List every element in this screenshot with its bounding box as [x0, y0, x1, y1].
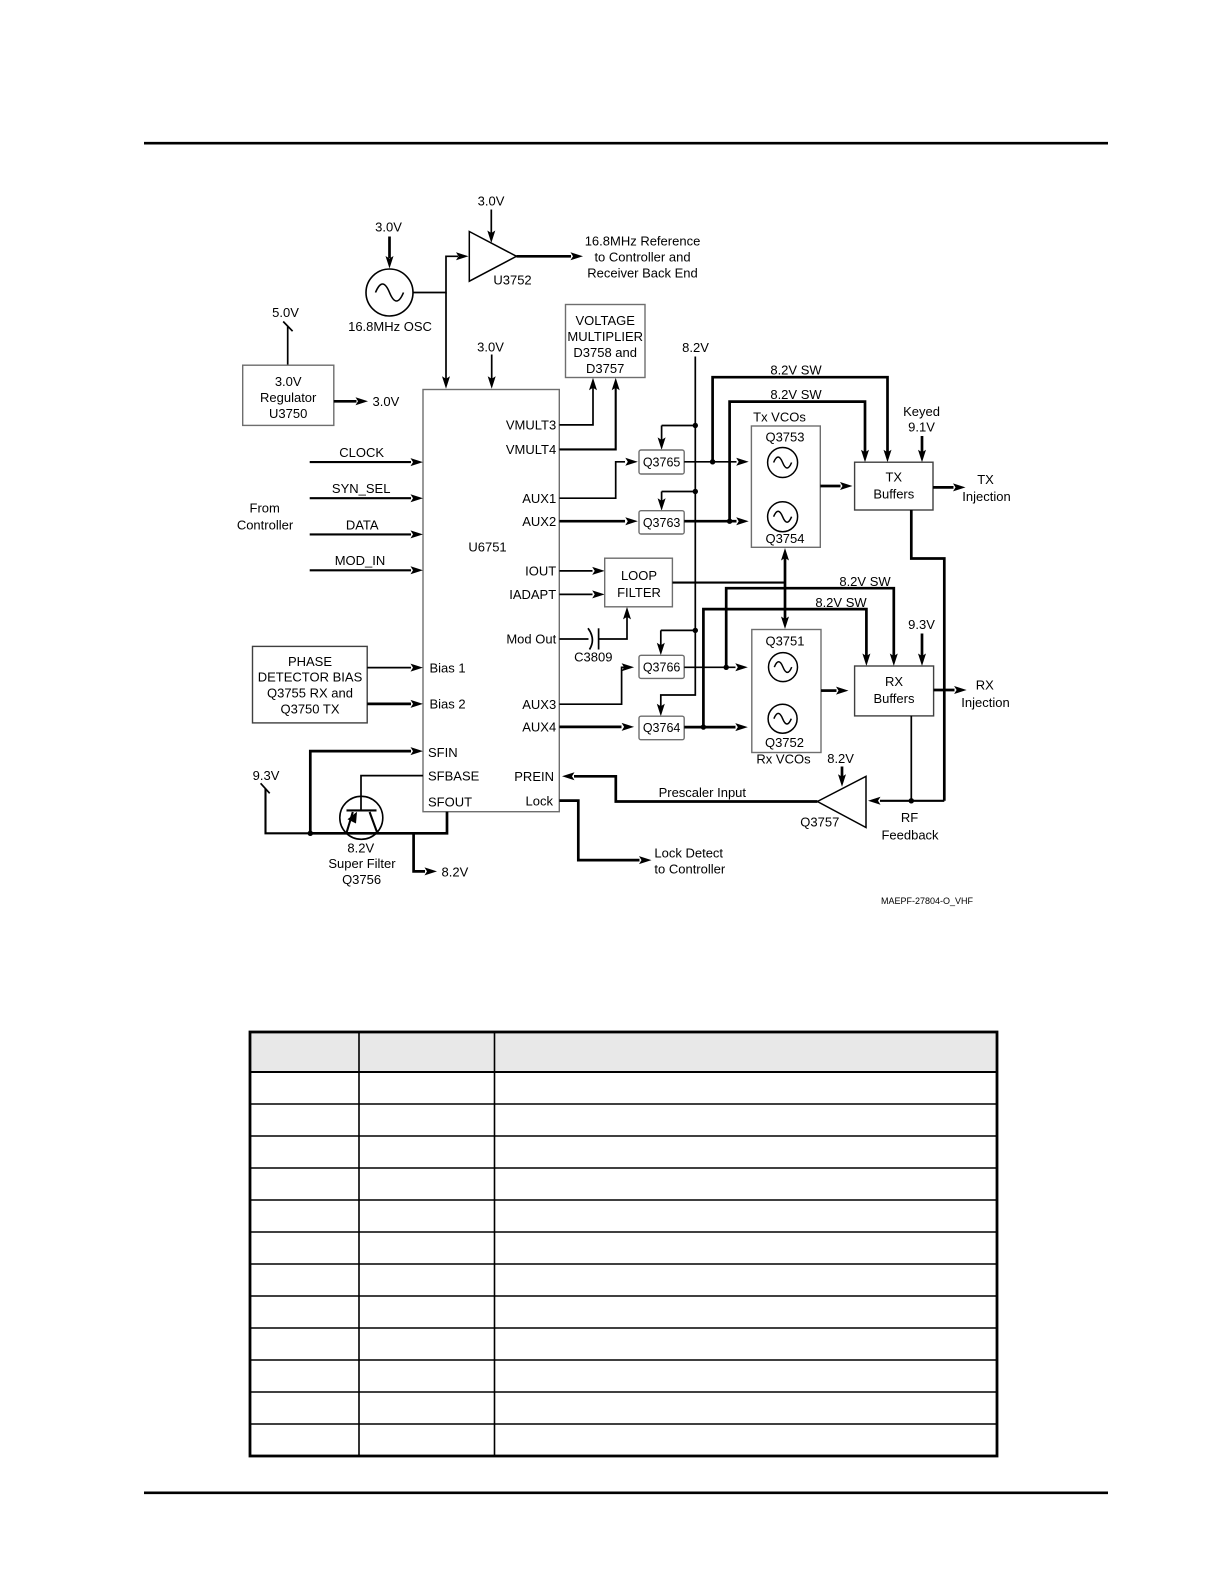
- node 8.2V rail junction C: [693, 628, 698, 633]
- svg-text:Rx VCOs: Rx VCOs: [756, 752, 811, 767]
- node RF feedback junction: [909, 798, 914, 803]
- oscillator Q3751: [769, 653, 798, 682]
- svg-text:Regulator: Regulator: [260, 390, 317, 405]
- wire RF feedback into Q3757: [868, 797, 944, 843]
- node super filter junction: [308, 831, 313, 836]
- wire SFIN feed: [310, 747, 423, 833]
- svg-text:Q3752: Q3752: [765, 735, 804, 750]
- svg-text:U3752: U3752: [493, 272, 531, 287]
- svg-text:MAEPF-27804-O_VHF: MAEPF-27804-O_VHF: [881, 896, 974, 906]
- svg-text:IADAPT: IADAPT: [509, 587, 556, 602]
- regulator U3750: [243, 365, 334, 425]
- svg-text:5.0V: 5.0V: [272, 305, 299, 320]
- wire oscillator output node: [413, 252, 469, 292]
- wire Q3765 output: [684, 458, 749, 466]
- svg-text:AUX4: AUX4: [522, 720, 556, 735]
- label 16.8MHz reference destination: [585, 233, 701, 280]
- node SW2 junction: [727, 519, 732, 524]
- svg-text:8.2V SW: 8.2V SW: [770, 387, 822, 402]
- wire 9.3V supply tap: [253, 768, 311, 834]
- wire 5.0V supply tap: [272, 305, 299, 365]
- svg-text:MOD_IN: MOD_IN: [335, 553, 386, 568]
- svg-text:IOUT: IOUT: [525, 564, 556, 579]
- wire Q3764 output: [684, 723, 748, 731]
- svg-text:8.2V: 8.2V: [827, 751, 854, 766]
- wire 8.2V SW line 3: [726, 574, 898, 668]
- pin Lock: [526, 793, 554, 808]
- svg-text:Lock: Lock: [526, 793, 554, 808]
- wire C3809 to loop filter: [599, 607, 631, 639]
- wire Q3763 supply feed: [658, 492, 696, 511]
- wire Q3766 output: [684, 663, 748, 671]
- wire Q3766 supply feed: [657, 630, 696, 655]
- svg-text:Controller: Controller: [237, 518, 294, 533]
- svg-text:RX: RX: [885, 674, 903, 689]
- svg-text:8.2V: 8.2V: [442, 864, 469, 879]
- wire TX feedback: [911, 510, 944, 801]
- capacitor C3809: [559, 628, 612, 664]
- svg-text:Bias 1: Bias 1: [430, 660, 466, 675]
- wire SFBASE lead: [361, 776, 423, 811]
- wire AUX1 to Q3765: [559, 458, 638, 498]
- svg-text:Q3757: Q3757: [800, 814, 839, 829]
- label drawing number MAEPF-27804-O_VHF: [881, 896, 974, 906]
- svg-text:3.0V: 3.0V: [373, 394, 400, 409]
- svg-text:VMULT3: VMULT3: [506, 418, 556, 433]
- top rule: [144, 142, 1108, 145]
- svg-text:CLOCK: CLOCK: [339, 445, 384, 460]
- buffer Q3763: [639, 511, 684, 534]
- wire RX injection output: [934, 678, 1010, 710]
- wire 8.2V SW line 2: [730, 387, 869, 521]
- wire VMULT3 to multiplier: [559, 378, 597, 425]
- oscillator Q3752: [765, 704, 804, 750]
- wire SFOUT bottom rail: [310, 812, 447, 834]
- wire 8.2V SW line 1: [713, 363, 892, 463]
- svg-text:TX: TX: [885, 470, 902, 485]
- wire SYN_SEL: [310, 481, 423, 502]
- buffer Q3766: [639, 655, 684, 678]
- svg-text:C3809: C3809: [574, 649, 612, 664]
- svg-text:MULTIPLIER: MULTIPLIER: [567, 329, 643, 344]
- wire CLOCK: [310, 445, 423, 466]
- svg-text:3.0V: 3.0V: [478, 194, 505, 209]
- label From Controller: [237, 501, 294, 533]
- wire IADAPT: [559, 590, 604, 598]
- svg-text:SFBASE: SFBASE: [428, 768, 480, 783]
- svg-text:VOLTAGE: VOLTAGE: [575, 313, 635, 328]
- wire Q3763 output: [684, 517, 749, 525]
- svg-text:DETECTOR BIAS: DETECTOR BIAS: [258, 669, 363, 684]
- svg-text:AUX1: AUX1: [522, 491, 556, 506]
- svg-text:SFIN: SFIN: [428, 745, 458, 760]
- svg-text:9.3V: 9.3V: [908, 617, 935, 632]
- block RX Buffers: [855, 666, 934, 716]
- svg-text:DATA: DATA: [346, 518, 379, 533]
- svg-text:Tx VCOs: Tx VCOs: [753, 410, 806, 425]
- oscillator Q3753: [768, 448, 798, 478]
- svg-text:RX: RX: [976, 678, 994, 693]
- pin SFBASE label: [428, 768, 480, 783]
- svg-text:Q3764: Q3764: [643, 721, 681, 735]
- wire TX injection output: [933, 472, 1011, 504]
- pin AUX4: [522, 720, 556, 735]
- svg-text:Receiver Back End: Receiver Back End: [587, 265, 698, 280]
- svg-text:Super Filter: Super Filter: [328, 856, 396, 871]
- pin AUX3: [522, 697, 556, 712]
- svg-text:Bias 2: Bias 2: [430, 697, 466, 712]
- bottom rule: [144, 1492, 1108, 1495]
- pin VMULT4: [506, 442, 556, 457]
- svg-text:SFOUT: SFOUT: [428, 794, 472, 809]
- svg-text:8.2V: 8.2V: [682, 340, 709, 355]
- oscillator Q3754: [765, 502, 804, 546]
- voltage multiplier D3758 D3757: [566, 305, 646, 378]
- transistor Q3757: [800, 776, 866, 829]
- node SW4 junction: [701, 724, 706, 729]
- svg-text:Feedback: Feedback: [881, 828, 939, 843]
- pin AUX2: [522, 514, 556, 529]
- node 8.2V rail junction B: [693, 489, 698, 494]
- svg-text:3.0V: 3.0V: [375, 220, 402, 235]
- wire AUX2 to Q3763: [559, 517, 638, 525]
- svg-text:Q3750 TX: Q3750 TX: [280, 702, 339, 717]
- pin Mod Out: [506, 632, 556, 647]
- buffer Q3764: [639, 716, 684, 740]
- pin IOUT: [525, 564, 556, 579]
- label super filter: [328, 840, 396, 887]
- pin PREIN: [514, 769, 554, 784]
- svg-text:9.1V: 9.1V: [908, 420, 935, 435]
- svg-text:to Controller and: to Controller and: [594, 249, 690, 264]
- block Rx VCOs: [752, 630, 821, 753]
- wire 9.3V into RX buffers: [908, 617, 935, 666]
- svg-text:Mod Out: Mod Out: [506, 632, 556, 647]
- svg-text:8.2V SW: 8.2V SW: [770, 363, 822, 378]
- svg-text:TX: TX: [977, 472, 994, 487]
- pin VMULT3: [506, 418, 556, 433]
- svg-text:RF: RF: [901, 810, 918, 825]
- wire oscillator to U6751 clock input: [442, 293, 450, 389]
- wire keyed 9.1V: [903, 404, 940, 462]
- wire 3.0V into U3752: [478, 194, 505, 244]
- wire lock detect: [559, 801, 726, 877]
- svg-text:D3758 and: D3758 and: [573, 345, 637, 360]
- svg-text:U6751: U6751: [468, 540, 506, 555]
- svg-text:9.3V: 9.3V: [253, 768, 280, 783]
- svg-text:Q3763: Q3763: [643, 516, 681, 530]
- pin Bias 2 label: [430, 697, 466, 712]
- svg-text:Q3755 RX and: Q3755 RX and: [267, 686, 353, 701]
- wire Rx VCO output: [821, 687, 849, 695]
- wire 3.0V into oscillator: [375, 220, 402, 269]
- node SW1 junction: [710, 459, 715, 464]
- svg-text:Q3765: Q3765: [643, 455, 681, 469]
- svg-text:16.8MHz Reference: 16.8MHz Reference: [585, 233, 701, 248]
- wire 16.8MHz reference output: [517, 252, 584, 260]
- wire MOD_IN: [310, 553, 423, 574]
- wire Q3765 supply feed: [658, 426, 696, 450]
- wire prescaler input: [562, 772, 817, 801]
- IC U6751: [423, 390, 559, 812]
- node SW3 junction: [724, 665, 729, 670]
- svg-text:FILTER: FILTER: [617, 585, 661, 600]
- svg-text:3.0V: 3.0V: [477, 339, 504, 354]
- wire 3.0V into U6751 top: [477, 339, 504, 389]
- svg-text:AUX2: AUX2: [522, 514, 556, 529]
- svg-text:VMULT4: VMULT4: [506, 442, 556, 457]
- wire loop filter to VCOs: [672, 582, 785, 584]
- op-amp buffer U3752: [469, 232, 531, 288]
- svg-text:Keyed: Keyed: [903, 404, 940, 419]
- svg-text:Lock Detect: Lock Detect: [654, 846, 723, 861]
- svg-text:8.2V SW: 8.2V SW: [839, 574, 891, 589]
- svg-text:From: From: [250, 501, 280, 516]
- svg-text:8.2V: 8.2V: [347, 840, 374, 855]
- wire 8.2V superfilter output: [414, 833, 469, 879]
- wire 8.2V rail: [657, 340, 709, 716]
- wire 8.2V SW line 4: [703, 595, 870, 727]
- transistor Q3756: [340, 796, 383, 839]
- svg-text:Q3754: Q3754: [765, 531, 804, 546]
- wire 3.0V regulator output: [334, 394, 400, 409]
- oscillator 16.8MHz OSC: [348, 269, 432, 334]
- svg-text:AUX3: AUX3: [522, 697, 556, 712]
- wire VCO control line: [781, 548, 789, 629]
- pin SFIN label: [428, 745, 458, 760]
- svg-text:Prescaler Input: Prescaler Input: [659, 785, 747, 800]
- node 8.2V rail junction A: [693, 423, 698, 428]
- block TX Buffers: [855, 462, 933, 510]
- svg-text:Injection: Injection: [961, 695, 1009, 710]
- svg-text:Injection: Injection: [962, 489, 1010, 504]
- svg-text:SYN_SEL: SYN_SEL: [332, 481, 391, 496]
- svg-text:Buffers: Buffers: [874, 691, 915, 706]
- wire RX feedback: [910, 716, 912, 801]
- wire VMULT4 to multiplier: [559, 378, 619, 450]
- svg-text:8.2V SW: 8.2V SW: [815, 595, 867, 610]
- parts table: [250, 1032, 997, 1456]
- wire Bias 2: [367, 700, 423, 708]
- pin AUX1: [522, 491, 556, 506]
- wire 8.2V into Q3757: [827, 751, 854, 787]
- svg-text:LOOP: LOOP: [621, 568, 657, 583]
- block PHASE DETECTOR BIAS: [253, 646, 368, 723]
- pin IADAPT: [509, 587, 556, 602]
- svg-text:Q3756: Q3756: [342, 872, 381, 887]
- block LOOP FILTER: [605, 558, 673, 607]
- svg-text:PHASE: PHASE: [288, 654, 332, 669]
- wire IOUT: [559, 567, 604, 575]
- block Tx VCOs: [751, 410, 820, 548]
- wire DATA: [310, 518, 423, 539]
- svg-text:U3750: U3750: [269, 406, 307, 421]
- svg-text:PREIN: PREIN: [514, 769, 554, 784]
- svg-text:Q3751: Q3751: [765, 633, 804, 648]
- svg-text:Buffers: Buffers: [873, 487, 914, 502]
- label Rx VCOs: [756, 752, 811, 767]
- pin SFOUT label: [428, 794, 472, 809]
- svg-text:3.0V: 3.0V: [275, 374, 302, 389]
- wire Tx VCO output: [820, 482, 852, 490]
- svg-text:16.8MHz OSC: 16.8MHz OSC: [348, 319, 432, 334]
- wire AUX3 to Q3766: [559, 663, 634, 704]
- wire AUX4 to Q3764: [559, 723, 634, 731]
- svg-text:Q3753: Q3753: [765, 429, 804, 444]
- pin Bias 1 label: [430, 660, 466, 675]
- svg-text:to Controller: to Controller: [654, 862, 725, 877]
- wire Bias 1: [367, 664, 423, 672]
- svg-text:Q3766: Q3766: [643, 661, 681, 675]
- svg-text:D3757: D3757: [586, 361, 624, 376]
- buffer Q3765: [639, 450, 684, 474]
